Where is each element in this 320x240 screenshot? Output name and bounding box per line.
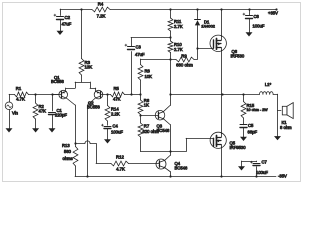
svg-text:IRF9530: IRF9530: [230, 145, 247, 150]
svg-text:Vin: Vin: [12, 111, 19, 116]
svg-text:4.7K: 4.7K: [116, 167, 125, 172]
svg-text:R8: R8: [145, 69, 151, 74]
svg-text:68pF: 68pF: [248, 130, 258, 135]
svg-text:47uF: 47uF: [62, 22, 72, 27]
svg-text:47K: 47K: [113, 97, 121, 102]
svg-text:+35V: +35V: [268, 11, 278, 16]
svg-text:7.2K: 7.2K: [97, 14, 106, 19]
svg-text:C4: C4: [113, 124, 119, 129]
svg-text:1K: 1K: [144, 103, 149, 108]
svg-text:R7: R7: [144, 124, 150, 129]
svg-text:2.7K: 2.7K: [174, 24, 183, 29]
svg-text:BC556: BC556: [51, 79, 64, 84]
svg-text:100uF: 100uF: [253, 24, 265, 29]
svg-text:BC556: BC556: [87, 105, 100, 110]
svg-text:R13: R13: [62, 143, 70, 148]
svg-text:2.2K: 2.2K: [111, 112, 120, 117]
svg-text:47uF: 47uF: [135, 52, 145, 57]
svg-text:C5: C5: [248, 123, 254, 128]
svg-text:13K: 13K: [85, 65, 93, 70]
svg-text:10 ohm - 2W: 10 ohm - 2W: [247, 108, 269, 112]
svg-text:1N4002: 1N4002: [201, 24, 215, 29]
svg-text:R12: R12: [116, 155, 124, 160]
svg-text:100uF: 100uF: [256, 170, 268, 175]
svg-text:R9: R9: [181, 54, 187, 59]
svg-text:4.7K: 4.7K: [16, 97, 25, 102]
svg-text:2.7K: 2.7K: [174, 47, 183, 52]
svg-text:220pF: 220pF: [55, 113, 67, 118]
svg-text:R1: R1: [16, 86, 22, 91]
svg-text:IRF530: IRF530: [231, 54, 245, 59]
svg-text:L1*: L1*: [265, 82, 272, 87]
svg-text:BC546: BC546: [175, 166, 188, 171]
svg-text:BC548: BC548: [157, 128, 170, 133]
svg-text:R4: R4: [98, 1, 104, 6]
svg-text:680 ohm: 680 ohm: [176, 63, 193, 68]
svg-text:100uF: 100uF: [111, 130, 123, 135]
svg-text:C2: C2: [65, 15, 71, 20]
svg-text:560: 560: [64, 149, 72, 154]
svg-text:10K: 10K: [145, 74, 153, 79]
svg-text:C8: C8: [254, 14, 260, 19]
svg-text:47K: 47K: [39, 109, 47, 114]
svg-text:-35V: -35V: [278, 174, 287, 179]
svg-text:R5: R5: [114, 86, 120, 91]
svg-text:ohms: ohms: [63, 156, 73, 161]
svg-text:C7: C7: [262, 160, 268, 165]
svg-text:8 ohm: 8 ohm: [280, 125, 292, 130]
svg-text:C3: C3: [136, 45, 142, 50]
